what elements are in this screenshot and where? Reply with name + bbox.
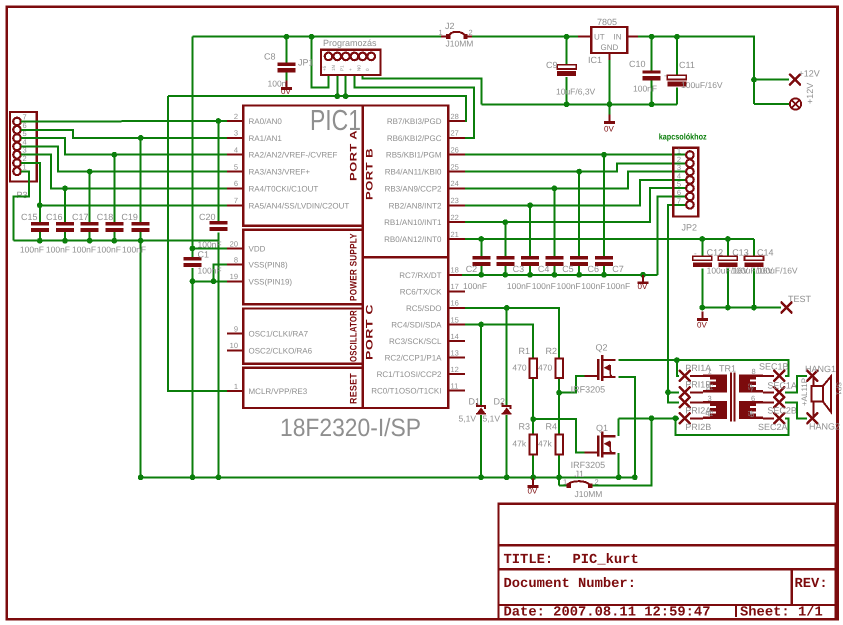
X mark SEC1B [774, 371, 784, 381]
svg-text:3: 3 [708, 394, 712, 403]
svg-text:6: 6 [234, 179, 238, 188]
capacitor C20 [209, 221, 227, 231]
svg-text:100nF: 100nF [97, 245, 121, 255]
cap C3 leads [504, 222, 506, 256]
svg-text:2: 2 [595, 478, 599, 487]
Q2 source down to rail [619, 377, 635, 477]
svg-text:0V: 0V [281, 87, 291, 96]
cap C14 leads [753, 239, 755, 256]
svg-text:100nF: 100nF [606, 281, 630, 291]
wire P3.6 to RA1 [21, 130, 227, 138]
PIC pin stubs and labels [227, 121, 465, 391]
svg-text:1: 1 [234, 382, 238, 391]
diode D1 leads [480, 325, 482, 406]
junction dots bus [478, 236, 484, 242]
svg-text:C10: C10 [629, 59, 646, 69]
wire P3.7 to RA0 [21, 120, 227, 123]
cap C17 leads [89, 172, 91, 223]
svg-text:13: 13 [451, 348, 459, 357]
svg-text:RA5/AN4/SS/LVDIN/C2OUT: RA5/AN4/SS/LVDIN/C2OUT [249, 201, 350, 210]
svg-text:J10MM: J10MM [446, 39, 474, 49]
wire RB4 row to JP2.2 [465, 163, 686, 171]
svg-text:11: 11 [451, 381, 459, 390]
resistor R2 [555, 358, 562, 378]
capacitor C11 (polarized) [667, 75, 686, 86]
svg-text:PIC_kurt: PIC_kurt [573, 553, 639, 568]
svg-text:SEC1A: SEC1A [767, 381, 797, 391]
svg-text:-: - [664, 71, 667, 80]
svg-text:VSS(PIN19): VSS(PIN19) [249, 277, 293, 286]
svg-text:5: 5 [750, 410, 754, 419]
X mark PRI1A [680, 371, 690, 381]
svg-text:RB4/AN11/KBI0: RB4/AN11/KBI0 [385, 168, 442, 177]
svg-text:26: 26 [451, 146, 459, 155]
svg-text:RB7/KBI3/PGD: RB7/KBI3/PGD [387, 117, 442, 126]
X mark SEC2B [774, 397, 784, 407]
svg-text:3: 3 [234, 129, 238, 138]
svg-text:1: 1 [563, 478, 567, 487]
wire JP1.1 to +5V rail [312, 37, 329, 88]
svg-text:RC7/RX/DT: RC7/RX/DT [399, 271, 441, 280]
capacitor C6 [570, 256, 588, 266]
bottom loop to SEC2A [675, 418, 788, 435]
svg-text:PRI1A: PRI1A [685, 363, 711, 373]
jumper J2 [441, 32, 472, 37]
svg-text:0V: 0V [604, 125, 614, 134]
capacitor C15 [31, 222, 49, 232]
svg-text:100nF: 100nF [20, 245, 44, 255]
svg-text:24: 24 [451, 179, 459, 188]
svg-text:Date: 2007.08.11 12:59:47: Date: 2007.08.11 12:59:47 [504, 606, 711, 621]
svg-text:C3: C3 [513, 264, 525, 274]
svg-text:18: 18 [451, 266, 459, 275]
svg-text:22: 22 [451, 213, 459, 222]
svg-text:C7: C7 [612, 264, 624, 274]
TR1 pin stubs [690, 376, 774, 419]
svg-text:-: - [694, 249, 697, 258]
svg-text:8: 8 [234, 256, 238, 265]
svg-text:JP2: JP2 [682, 223, 698, 233]
svg-text:RB2/AN8/INT2: RB2/AN8/INT2 [389, 201, 442, 210]
svg-text:MCLR/VPP/RE3: MCLR/VPP/RE3 [249, 387, 308, 396]
svg-text:7: 7 [677, 196, 681, 205]
junction dots top rail [284, 34, 290, 40]
wire P3.1 to ground rail [14, 171, 29, 240]
svg-text:TR1: TR1 [719, 364, 736, 374]
svg-text:16: 16 [451, 299, 459, 308]
capacitor C2 [472, 256, 490, 266]
connector JP2 [673, 148, 698, 217]
svg-text:-: - [720, 249, 723, 258]
svg-text:RB0/AN12/INT0: RB0/AN12/INT0 [384, 235, 442, 244]
net B to Q2 gate [559, 376, 584, 393]
svg-text:IC1: IC1 [588, 55, 602, 65]
POWER SUPPLY box [243, 230, 363, 305]
svg-text:C11: C11 [679, 60, 695, 70]
J1 wire right up to PRI2B net [593, 418, 652, 485]
R4 bottom to rail and J1 [558, 454, 560, 485]
svg-text:C16: C16 [46, 212, 63, 222]
cap C11 leads [676, 37, 678, 76]
svg-text:OSC2/CLKO/RA6: OSC2/CLKO/RA6 [249, 346, 313, 355]
wire P3.5 to RA2 [21, 138, 227, 155]
svg-text:RB1/AN10/INT1: RB1/AN10/INT1 [384, 218, 442, 227]
svg-text:10: 10 [230, 341, 238, 350]
capacitor C4 [521, 256, 539, 266]
svg-text:14: 14 [451, 332, 459, 341]
svg-text:PRI1B: PRI1B [685, 380, 711, 390]
wire +12V X terminal [754, 79, 789, 81]
svg-text:Programozás: Programozás [323, 38, 377, 48]
svg-text:PORT A: PORT A [349, 130, 360, 181]
svg-text:RC0/T1OSO/T1CKI: RC0/T1OSO/T1CKI [371, 387, 441, 396]
X mark SEC1A [774, 387, 784, 397]
svg-text:OSCILLATOR: OSCILLATOR [349, 310, 360, 362]
svg-text:C20: C20 [199, 212, 216, 222]
svg-text:PORT B: PORT B [365, 148, 376, 200]
wire RB0 row to C12-C14 rail [465, 238, 754, 240]
regulator IC1 7805 box [591, 27, 627, 53]
wire VDD row [193, 248, 228, 250]
wire 7805 IN to +12V corner [638, 37, 754, 104]
svg-text:470: 470 [512, 363, 526, 373]
svg-text:C9: C9 [546, 60, 558, 70]
ground strap C20 column to bottom rail [217, 241, 219, 478]
X mark PRI2A [680, 397, 690, 407]
Q1 source down to rail [618, 453, 620, 477]
svg-text:Document Number:: Document Number: [504, 577, 636, 592]
svg-text:PORT C: PORT C [365, 304, 376, 360]
svg-text:HANG2: HANG2 [809, 422, 840, 432]
svg-text:28: 28 [451, 112, 459, 121]
capacitor C13 (polarized) [718, 256, 737, 267]
cap C15 leads [39, 205, 41, 222]
svg-text:VDD: VDD [249, 245, 266, 254]
transformer core [731, 373, 735, 422]
wire RC4/SDA row to R1 [465, 325, 533, 359]
wire JP1.2 to MCLR net [336, 75, 338, 96]
Q2 drain wire to SEC1B loop [619, 360, 789, 376]
svg-text:C17: C17 [72, 212, 89, 222]
ground 0V on cap rail [638, 275, 649, 284]
svg-text:27: 27 [451, 129, 459, 138]
svg-text:0V: 0V [638, 282, 648, 291]
R1 bottom to net A [532, 378, 534, 435]
wire JP2.6 to cap ground rail [658, 197, 687, 275]
PORT B box [363, 106, 449, 258]
svg-text:C5: C5 [562, 264, 574, 274]
cap C20 leads [217, 121, 219, 221]
capacitor C12 (polarized) [693, 256, 712, 267]
svg-text:RB6/KBI2/PGC: RB6/KBI2/PGC [387, 134, 442, 143]
capacitor C10 [643, 71, 661, 81]
svg-text:15: 15 [451, 315, 459, 324]
svg-text:47k: 47k [512, 438, 526, 448]
svg-text:RA2/AN2/VREF-/CVREF: RA2/AN2/VREF-/CVREF [249, 151, 338, 160]
wire HANG1 to SEC1A [785, 376, 807, 393]
wire PRI1B PRI2A join [668, 376, 807, 419]
winding labels [709, 383, 754, 416]
svg-text:2: 2 [234, 112, 238, 121]
svg-text:7: 7 [750, 385, 754, 394]
svg-text:POWER SUPPLY: POWER SUPPLY [349, 233, 360, 301]
7805 pin stubs [578, 37, 638, 60]
op IC PIC1 section boxes [243, 106, 448, 409]
PORT A box [243, 106, 363, 226]
ground 0V below C8 [281, 81, 292, 90]
svg-text:100nF: 100nF [581, 281, 605, 291]
cap C7 leads [603, 155, 605, 257]
svg-text:REV:: REV: [795, 577, 828, 592]
wire VSS(PIN8) row [214, 265, 228, 282]
jumper J1 [567, 481, 591, 486]
OSCILLATOR box [243, 309, 363, 364]
resistor R1 [530, 358, 537, 378]
svg-text:kapcsolókhoz: kapcsolókhoz [659, 132, 707, 142]
capacitor C1 [184, 257, 202, 267]
wire J2.2 to 7805 OUT [468, 36, 579, 38]
connector P3 [10, 112, 37, 181]
svg-text:C19: C19 [121, 212, 138, 222]
svg-text:RC1/T1OSI/CCP2: RC1/T1OSI/CCP2 [377, 370, 442, 379]
svg-text:PRI2B: PRI2B [685, 422, 711, 432]
wire VSS(PIN19) row [193, 280, 228, 282]
zener diode D1 [476, 403, 486, 415]
svg-text:5,1V: 5,1V [459, 413, 477, 423]
VSS strap down to bottom rail [192, 281, 194, 477]
R2 bottom to net B [558, 378, 560, 435]
cap C19 leads [140, 138, 142, 222]
svg-text:UT: UT [594, 33, 605, 42]
svg-text:8: 8 [752, 367, 756, 376]
wire P3.3 to RA4 [21, 155, 227, 189]
wire RB1 row to JP2.5 [465, 188, 686, 222]
wires P3 to PIC port A [14, 37, 227, 478]
resistor R4 [555, 435, 562, 455]
svg-text:RC2/CCP1/P1A: RC2/CCP1/P1A [385, 354, 443, 363]
svg-text:100nF: 100nF [507, 281, 531, 291]
svg-text:100nF: 100nF [72, 245, 96, 255]
svg-text:C2: C2 [466, 264, 478, 274]
+12V circle terminal [790, 98, 801, 109]
wire JP2.7 down to transformer primary [668, 205, 686, 392]
resistor R3 [530, 435, 537, 455]
connector JP1 programming header [321, 50, 380, 75]
junction dots [564, 34, 570, 40]
net A to Q1 gate [533, 419, 584, 452]
svg-text:0: 0 [365, 68, 370, 71]
capacitor C9 (polarized) [557, 65, 576, 76]
svg-text:RA3/AN3/VREF+: RA3/AN3/VREF+ [249, 168, 311, 177]
X mark HANG1 [807, 371, 817, 381]
cap C8 top lead [285, 37, 287, 63]
svg-text:J2: J2 [445, 21, 455, 31]
wire RB5 row to JP2.1 [465, 154, 686, 156]
svg-text:0V: 0V [697, 321, 707, 330]
svg-text:10uF/6,3V: 10uF/6,3V [556, 87, 596, 97]
wire MCLR net: JP1 area to PIC pin 28 [168, 96, 466, 121]
capacitor C7 [595, 256, 613, 266]
svg-text:Q2: Q2 [596, 343, 608, 353]
svg-text:100nF: 100nF [532, 281, 556, 291]
X mark PRI1B [680, 387, 690, 397]
junction dots left area [216, 118, 222, 124]
svg-text:+5: +5 [322, 65, 327, 71]
capacitor C5 [545, 256, 563, 266]
wire RB2 row to JP2.4 [465, 180, 686, 205]
cap C9 leads [566, 37, 568, 65]
junction dots gate area [478, 322, 484, 328]
svg-text:C8: C8 [264, 52, 276, 62]
cap C6 leads [578, 172, 580, 257]
svg-text:100uF/16V: 100uF/16V [756, 266, 798, 276]
zener diode D2 [502, 403, 512, 415]
cap C18 leads [113, 155, 115, 223]
svg-text:20: 20 [230, 239, 238, 248]
svg-text:5: 5 [234, 162, 238, 171]
transformer TR1 windings [703, 375, 727, 393]
bottom ground rail [141, 476, 635, 478]
capacitor C19 [132, 222, 150, 232]
svg-text:7805: 7805 [597, 17, 617, 27]
svg-text:J1: J1 [575, 469, 585, 479]
svg-text:7: 7 [234, 196, 238, 205]
svg-text:0V: 0V [528, 487, 538, 496]
svg-text:RC4/SDI/SDA: RC4/SDI/SDA [391, 321, 442, 330]
wire RC5/SDO row to R2 [465, 308, 559, 358]
svg-text:47k: 47k [538, 438, 552, 448]
wire P3.4 to RA3 [21, 146, 227, 171]
ground rail 0V top area [481, 103, 677, 105]
cap C5 leads [553, 188, 555, 256]
transistor Q1 IRF3205 [584, 431, 615, 457]
svg-text:C6: C6 [588, 264, 600, 274]
ground 0V below C12 [697, 312, 708, 321]
svg-text:R4: R4 [546, 422, 558, 432]
cap C1 leads [192, 249, 194, 258]
svg-text:GND: GND [601, 43, 619, 52]
vertical MCLR net down to pin 1 [168, 96, 227, 391]
svg-text:RC3/SCK/SCL: RC3/SCK/SCL [389, 337, 442, 346]
svg-text:1: 1 [439, 28, 443, 37]
transistor Q2 IRF3205 [584, 355, 615, 381]
cap C10 leads [651, 37, 653, 71]
svg-text:9: 9 [234, 325, 238, 334]
wire HANG2 to SEC2B [785, 402, 807, 418]
svg-text:N0: N0 [357, 65, 362, 71]
svg-text:100nF: 100nF [633, 84, 657, 94]
diode D2 leads [506, 308, 508, 405]
capacitor C16 [56, 222, 74, 232]
svg-text:P3: P3 [17, 190, 28, 200]
wire P3.2 to RA5 [21, 163, 227, 205]
X mark HANG2 [807, 413, 817, 423]
svg-text:25: 25 [451, 162, 459, 171]
svg-text:PRI2A: PRI2A [685, 406, 711, 416]
svg-text:+: + [348, 68, 353, 71]
capacitor C3 [496, 256, 514, 266]
svg-text:JP1: JP1 [298, 58, 314, 68]
svg-text:C14: C14 [757, 248, 774, 258]
svg-text:100nF: 100nF [198, 239, 222, 249]
svg-text:RB3/AN9/CCP2: RB3/AN9/CCP2 [385, 184, 442, 193]
capacitor C8 [277, 63, 295, 73]
svg-text:HANG1: HANG1 [805, 364, 836, 374]
svg-text:RC6/TX/CK: RC6/TX/CK [400, 287, 442, 296]
svg-text:RA4/T0CKI/C1OUT: RA4/T0CKI/C1OUT [249, 184, 319, 193]
svg-text:TITLE:: TITLE: [504, 553, 554, 568]
ground strap C19 column to bottom rail [140, 241, 142, 478]
ground 0V below 7805 [604, 115, 615, 124]
ground rail under C15-C20 [14, 240, 219, 242]
svg-text:C1: C1 [198, 250, 210, 260]
svg-text:21: 21 [451, 230, 459, 239]
svg-text:100nF: 100nF [198, 265, 222, 275]
svg-text:D2: D2 [494, 397, 506, 407]
svg-text:D1: D1 [469, 397, 481, 407]
cap C16 leads [64, 188, 66, 222]
PORT C box [363, 257, 449, 408]
svg-text:470: 470 [538, 363, 552, 373]
wire GND pin down to rail [609, 60, 611, 116]
svg-text:C4: C4 [538, 264, 550, 274]
svg-text:IN: IN [614, 33, 622, 42]
svg-text:RC5/SDO: RC5/SDO [406, 304, 442, 313]
svg-text:+AL11P: +AL11P [800, 378, 809, 406]
svg-text:17: 17 [451, 282, 459, 291]
svg-text:RB5/KBI1/PGM: RB5/KBI1/PGM [386, 151, 442, 160]
svg-text:VSS(PIN8): VSS(PIN8) [249, 261, 288, 270]
TEST terminal [782, 303, 792, 313]
svg-text:J10MM: J10MM [575, 489, 603, 499]
svg-text:100nF: 100nF [122, 245, 146, 255]
svg-text:OSC1/CLKI/RA7: OSC1/CLKI/RA7 [249, 330, 309, 339]
R3 bottom to rail [532, 454, 534, 477]
title block frame [499, 504, 836, 620]
svg-text:C18: C18 [97, 212, 114, 222]
svg-text:IRF3205: IRF3205 [571, 384, 606, 394]
X mark PRI2B [680, 413, 690, 423]
svg-text:SEC2B: SEC2B [767, 406, 797, 416]
svg-text:C15: C15 [21, 212, 38, 222]
capacitor C14 (polarized) [745, 256, 764, 267]
capacitor C18 [105, 222, 123, 232]
wire JP1.4 to PIC pin 27 [354, 75, 474, 138]
svg-text:19: 19 [230, 272, 238, 281]
wire RB3 row to JP2.3 [465, 172, 686, 189]
svg-text:R3: R3 [519, 422, 531, 432]
svg-text:100uF/16V: 100uF/16V [681, 80, 723, 90]
svg-text:2: 2 [469, 28, 473, 37]
svg-text:100nF: 100nF [463, 281, 487, 291]
svg-text:SP1: SP1 [835, 382, 842, 395]
cap C13 leads [727, 239, 729, 256]
+12V X terminal [790, 75, 800, 85]
svg-text:R2: R2 [546, 346, 558, 356]
+5V vertical from top rail to VDD and C1 [192, 37, 194, 249]
svg-text:1N: 1N [331, 65, 336, 71]
svg-text:R1: R1 [519, 346, 531, 356]
svg-text:Sheet: 1/1: Sheet: 1/1 [740, 606, 823, 621]
branch PRI1A from drain line [677, 360, 679, 376]
Q1 drain wire to PRI2B [618, 418, 620, 436]
JP1 tiny pin function labels [322, 65, 370, 71]
wire +12V circle terminal [754, 103, 790, 105]
cap C4 leads [529, 205, 531, 256]
wire JP1.5 to GND rail [363, 75, 482, 104]
ground 0V on bottom rail [528, 479, 539, 488]
svg-text:5,1V: 5,1V [483, 413, 501, 423]
